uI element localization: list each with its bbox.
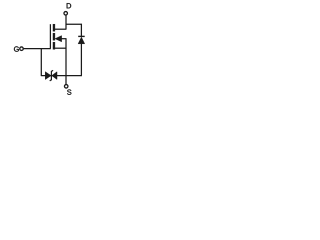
node G label [14, 46, 19, 51]
node D label [67, 3, 71, 8]
wire source vertical [65, 39, 67, 85]
wire drain riser [65, 16, 67, 30]
wire drain lead [54, 28, 66, 30]
wire source lead [54, 47, 67, 49]
transistor Q1 gate bar [49, 24, 51, 48]
terminal D [64, 12, 68, 16]
zener Z1 anode triangle [45, 72, 51, 80]
wire diode-to-source [80, 44, 82, 76]
wire source rail [41, 75, 82, 77]
diode D2 body [78, 37, 85, 44]
wire gate lead [24, 48, 51, 50]
diode D2 cathode bar [78, 35, 85, 37]
transistor Q1 channel source segment [53, 42, 55, 49]
terminal S [64, 85, 68, 89]
wire gate protection branch [40, 49, 42, 77]
transistor Q1 body arrow [55, 36, 62, 42]
wire body connection [61, 38, 67, 40]
zener shared cathode bar [50, 70, 53, 80]
wire drain-to-diode branch [66, 24, 81, 36]
transistor Q1 channel drain segment [53, 24, 55, 31]
terminal G [20, 47, 24, 51]
zener Z2 anode triangle [52, 72, 57, 80]
node S label [67, 90, 71, 95]
transistor Q1 channel body segment [53, 33, 55, 40]
